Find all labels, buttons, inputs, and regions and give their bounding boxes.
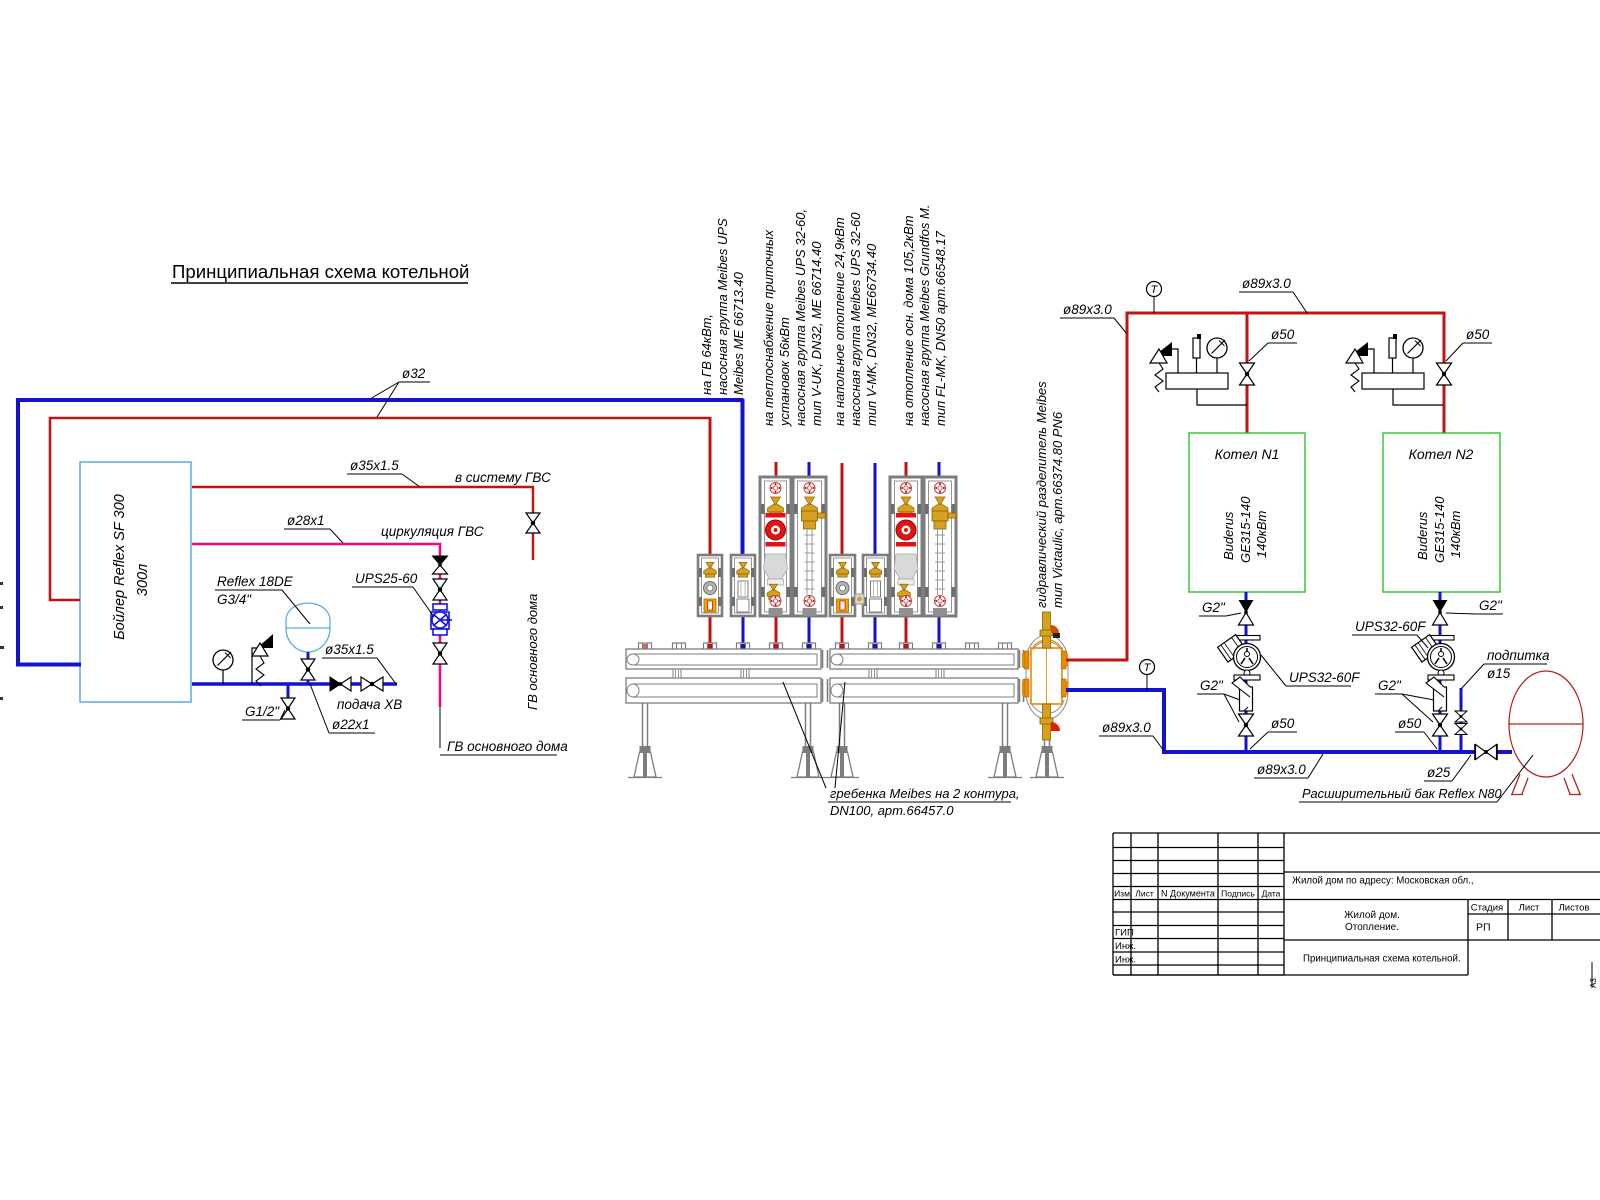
svg-text:300л: 300л [135, 564, 151, 596]
pipe: cold water supply (blue) [192, 682, 397, 686]
drain valve G1/2" [287, 684, 290, 698]
svg-text:G3/4": G3/4" [217, 592, 252, 607]
svg-text:UPS25-60: UPS25-60 [355, 571, 418, 586]
svg-text:UPS32-60F: UPS32-60F [1289, 670, 1360, 685]
pipe: boiler 2 return (blue) [1439, 592, 1442, 752]
pump group: DHW supply (small, pump) [698, 555, 722, 616]
connector between medium groups [855, 594, 864, 604]
boiler Котел N1 [1189, 433, 1305, 592]
svg-text:ø50: ø50 [1271, 327, 1295, 342]
pipe: red stub pump group 4 [905, 462, 908, 478]
svg-text:ø89х3.0: ø89х3.0 [1102, 720, 1151, 735]
svg-text:G2": G2" [1479, 598, 1503, 613]
valve on cold line [361, 677, 383, 691]
svg-text:РП: РП [1476, 922, 1491, 934]
valve boiler 2 return [1433, 714, 1448, 736]
hydraulic separator Meibes Victaulic [1022, 612, 1068, 740]
pump group: main heating return (large, pipe) [924, 477, 956, 616]
svg-text:на ГВ 64кВт,: на ГВ 64кВт, [699, 314, 714, 395]
pipe: red heating supply main (left loop) [50, 418, 710, 600]
strainer boiler 1 [1232, 677, 1253, 711]
svg-text:на теплоснабжение приточных: на теплоснабжение приточных [761, 229, 776, 426]
clipped margin marks at left edge [0, 582, 4, 700]
pipe: DHW circulation (magenta) [192, 544, 440, 707]
svg-text:Принципиальная схема котельной: Принципиальная схема котельной. [1303, 954, 1461, 965]
manifold Meibes section 2 [830, 643, 1018, 703]
expansion vessel Reflex 18DE [286, 603, 330, 652]
svg-text:Жилой дом.: Жилой дом. [1344, 910, 1400, 921]
svg-text:Жилой дом по адресу: Московска: Жилой дом по адресу: Московская обл., [1292, 876, 1474, 887]
svg-text:ø22х1: ø22х1 [332, 717, 370, 732]
svg-text:Котел N1: Котел N1 [1215, 446, 1280, 462]
svg-text:Принципиальная схема котельной: Принципиальная схема котельной [172, 261, 469, 282]
svg-text:Meibes ME 66713.40: Meibes ME 66713.40 [731, 271, 746, 395]
svg-text:Лист: Лист [1135, 889, 1154, 899]
valve before expansion tank [1476, 745, 1497, 760]
svg-text:N Документа: N Документа [1161, 889, 1215, 899]
svg-text:ø89х3.0: ø89х3.0 [1242, 276, 1291, 291]
svg-text:ø35х1.5: ø35х1.5 [350, 458, 399, 473]
pressure gauge on cold line [222, 670, 224, 684]
pump group: floor heating return (medium, pipe) [863, 555, 888, 616]
page format marker bottom right [1591, 962, 1593, 988]
svg-text:в систему ГВС: в систему ГВС [455, 470, 551, 485]
pipe: blue stub pump group 4 [938, 462, 941, 478]
svg-text:140кВт: 140кВт [1448, 511, 1463, 558]
safety group boiler 2 [1346, 334, 1443, 405]
svg-text:G2": G2" [1378, 678, 1402, 693]
manifold Meibes section 1 [626, 643, 821, 703]
svg-text:ø89х3.0: ø89х3.0 [1063, 302, 1112, 317]
svg-text:Бойлер Reflex SF 300: Бойлер Reflex SF 300 [112, 494, 128, 640]
svg-text:подача ХВ: подача ХВ [337, 697, 402, 712]
svg-text:G1/2": G1/2" [245, 704, 280, 719]
svg-text:ГВ основного дома: ГВ основного дома [525, 594, 540, 710]
svg-text:G2": G2" [1200, 678, 1224, 693]
pipe: blue stub pump group 2 [808, 462, 811, 478]
svg-text:Расширительный бак Reflex N80: Расширительный бак Reflex N80 [1302, 786, 1503, 801]
svg-text:насосная группа Meibes UPS 32-: насосная группа Meibes UPS 32-60 [848, 212, 863, 426]
svg-text:гребенка Meibes на 2 контура: гребенка Meibes на 2 контура, [830, 786, 1020, 801]
check valve on circulation riser [433, 556, 448, 574]
pipe: blue return main from separator [1066, 690, 1476, 752]
svg-text:ГВ основного дома: ГВ основного дома [447, 739, 568, 754]
pipe: red stub pump group 2 [775, 462, 778, 478]
svg-text:тип Victaulic, арт.66374.80 PN: тип Victaulic, арт.66374.80 PN6 [1050, 411, 1065, 608]
valve below pump [433, 643, 447, 664]
pipe: riser blue from pump group 1 [742, 399, 745, 555]
expansion tank Reflex N80 [1509, 671, 1583, 795]
valve on boiler 2 supply riser [1437, 363, 1452, 385]
pipe: red from separator up and across to boilers [1066, 313, 1444, 660]
boiler Reflex SF 300 box [80, 462, 191, 702]
svg-text:Отопление.: Отопление. [1345, 922, 1399, 933]
svg-text:ø89х3.0: ø89х3.0 [1257, 762, 1306, 777]
svg-text:DN100, арт.66457.0: DN100, арт.66457.0 [830, 803, 954, 818]
valve on circulation riser [433, 579, 447, 600]
svg-text:Buderus: Buderus [1221, 511, 1236, 560]
svg-text:ø28х1: ø28х1 [287, 513, 325, 528]
svg-text:установок 56кВт: установок 56кВт [777, 317, 792, 427]
valve on boiler 1 supply riser [1240, 363, 1255, 385]
svg-text:насосная группа Meibes Grundfo: насосная группа Meibes Grundfos M. [917, 205, 932, 426]
label: manifold (гребенка) with leaders [783, 682, 826, 788]
thermometer on red main [1153, 296, 1155, 313]
leader + label ГВ основного дома (bottom) [439, 707, 441, 748]
manifold legs [628, 703, 662, 778]
svg-text:ø32: ø32 [402, 366, 426, 381]
check valve boiler 1 return [1239, 600, 1254, 625]
boiler Котел N2 [1383, 433, 1500, 592]
svg-text:Лист: Лист [1519, 903, 1540, 914]
pump group: floor heating supply (medium, pump V-MK) [830, 555, 855, 616]
svg-text:гидравлический разделитель Mei: гидравлический разделитель Meibes [1034, 381, 1049, 608]
pipe: blue heating return main (left loop) [18, 400, 742, 665]
svg-text:ø25: ø25 [1427, 765, 1451, 780]
svg-text:G2": G2" [1202, 600, 1226, 615]
svg-text:Buderus: Buderus [1415, 511, 1430, 560]
separator leg [1030, 740, 1064, 778]
manifold flanges between sections [823, 650, 1024, 702]
svg-text:Изм: Изм [1114, 889, 1130, 899]
svg-text:на напольное отопление 24,9кВт: на напольное отопление 24,9кВт [832, 217, 847, 426]
valve on DHW riser [526, 513, 540, 533]
pipe: boiler 1 return (blue) [1245, 592, 1248, 752]
svg-text:Дата: Дата [1262, 889, 1281, 899]
pump group: ventilation supply (large, pump V-UK) [760, 477, 791, 616]
svg-text:Стадия: Стадия [1471, 903, 1503, 914]
pump UPS25-60 (blue) [431, 604, 452, 635]
svg-text:насосная группа Meibes UPS 32-: насосная группа Meibes UPS 32-60, [793, 209, 808, 426]
svg-text:ГИП: ГИП [1115, 928, 1134, 939]
check valve boiler 2 return [1433, 600, 1448, 625]
pipe: riser red to pump group 1 [709, 417, 712, 555]
pump group: main heating supply (large, pump FL-MK) [890, 477, 922, 616]
pump group: DHW return (small, pipe) [731, 555, 755, 616]
svg-text:ø50: ø50 [1398, 716, 1422, 731]
svg-text:ø50: ø50 [1271, 716, 1295, 731]
svg-text:Инж.: Инж. [1115, 955, 1136, 966]
svg-text:Котел N2: Котел N2 [1409, 446, 1474, 462]
feed line подпитка [1460, 688, 1463, 752]
svg-text:циркуляция ГВС: циркуляция ГВС [381, 524, 484, 539]
svg-text:140кВт: 140кВт [1254, 511, 1269, 558]
svg-text:Инж.: Инж. [1115, 941, 1136, 952]
svg-text:тип V-UK, DN32, ME 66714.40: тип V-UK, DN32, ME 66714.40 [809, 241, 824, 426]
svg-text:Подпись: Подпись [1221, 889, 1255, 899]
pipe: riser blue pump group 3 [874, 463, 877, 555]
pump group: ventilation return (large, pipe) [793, 477, 826, 616]
strainer boiler 2 [1426, 677, 1447, 711]
svg-text:Листов: Листов [1559, 903, 1590, 914]
svg-text:GE315-140: GE315-140 [1432, 496, 1447, 563]
svg-text:UPS32-60F: UPS32-60F [1355, 619, 1426, 634]
svg-text:GE315-140: GE315-140 [1238, 496, 1253, 563]
svg-text:тип V-MK, DN32, ME66734.40: тип V-MK, DN32, ME66734.40 [864, 243, 879, 426]
svg-text:Reflex 18DE: Reflex 18DE [217, 574, 294, 589]
pump UPS32-60F boiler 1 [1218, 635, 1261, 680]
svg-text:ø35х1.5: ø35х1.5 [325, 642, 374, 657]
svg-text:ø15: ø15 [1487, 666, 1511, 681]
title block [1113, 833, 1600, 975]
pump UPS32-60F boiler 2 [1412, 635, 1455, 680]
pipe: riser red pump group 3 [841, 463, 844, 555]
svg-text:тип FL-MK, DN50 арт.66548.17: тип FL-MK, DN50 арт.66548.17 [933, 230, 948, 426]
valve boiler 1 return [1239, 714, 1254, 736]
valve under expansion vessel [301, 659, 315, 680]
safety group boiler 1 [1150, 334, 1247, 405]
check valve on cold line [330, 677, 351, 691]
svg-text:ø50: ø50 [1466, 327, 1490, 342]
svg-text:насосная группа Meibes UPS: насосная группа Meibes UPS [715, 218, 730, 395]
thermometer on blue main [1146, 674, 1148, 690]
svg-text:подпитка: подпитка [1487, 648, 1550, 663]
safety valve on cold line [252, 648, 262, 684]
svg-text:А3: А3 [1589, 978, 1598, 988]
pipe: red to DHW system [192, 487, 533, 560]
svg-text:на отопление осн. дома 105,2кВ: на отопление осн. дома 105,2кВт [901, 215, 916, 426]
